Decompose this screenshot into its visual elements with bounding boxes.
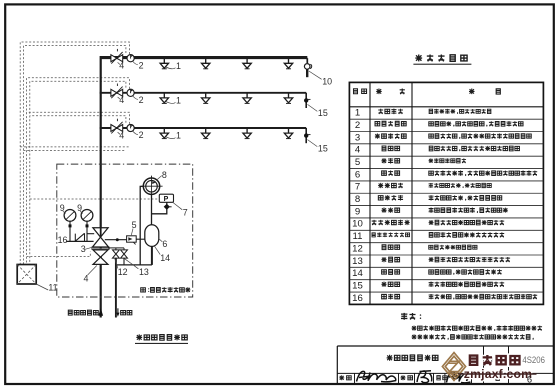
svg-text:6: 6 xyxy=(162,239,167,249)
wire drain header xyxy=(108,247,124,249)
test valve 13 xyxy=(121,250,128,258)
table header 编号 名称 用途 xyxy=(354,89,358,94)
drain valve 12 xyxy=(113,250,120,258)
svg-text:14: 14 xyxy=(160,253,170,263)
title block 设计 xyxy=(437,376,447,380)
svg-text:15: 15 xyxy=(318,143,328,153)
svg-text:8: 8 xyxy=(162,170,167,180)
svg-text:5: 5 xyxy=(355,157,360,168)
test valve 15 (line end) xyxy=(304,93,311,108)
sprinkler head line 1 #1 xyxy=(160,58,168,69)
text 说明： xyxy=(401,313,421,320)
check valve 16 xyxy=(75,233,84,241)
label 3 leader xyxy=(85,247,92,249)
label 12 leader xyxy=(115,259,118,269)
drain arrow down xyxy=(117,308,119,313)
parts table title 主要部件表 xyxy=(415,54,467,61)
svg-text:1: 1 xyxy=(176,131,181,141)
wire zone1 inner dashed xyxy=(23,46,126,265)
wire main drain pipe xyxy=(115,258,117,317)
sprinkler head line 2 #1 xyxy=(160,93,168,104)
signature 1 xyxy=(357,371,397,381)
sprinkler head line 1 #4 xyxy=(284,58,292,69)
label 1 leader line 1 xyxy=(166,67,176,69)
svg-text:2: 2 xyxy=(355,120,360,131)
label 14 leader xyxy=(155,246,161,254)
label 6 leader xyxy=(159,239,163,242)
label 13 leader xyxy=(125,259,139,269)
title block 校对 xyxy=(401,375,413,380)
sprinkler head line 1 #3 xyxy=(243,58,251,69)
label 11 leader xyxy=(36,284,48,290)
label 4 leader line 2 xyxy=(118,97,120,99)
label 7 leader xyxy=(173,202,183,209)
note line 1 xyxy=(412,326,542,331)
svg-text:6: 6 xyxy=(355,169,360,180)
wire alarm output line xyxy=(105,239,127,241)
title block frame xyxy=(337,346,553,384)
label 2 leader line 3 xyxy=(133,131,138,135)
label 4 leader line 3 xyxy=(118,132,120,134)
label 10 leader xyxy=(309,71,322,79)
wire delay chamber drain (throttle) xyxy=(151,246,153,265)
note text 注：框内为报警阀组 xyxy=(141,287,191,292)
valve on pressure switch line xyxy=(164,204,170,210)
svg-text:1: 1 xyxy=(176,96,181,106)
svg-text:12: 12 xyxy=(352,243,363,254)
title block 湿式系统示意图 xyxy=(387,355,438,361)
title block 审核 xyxy=(339,375,351,380)
svg-text:14: 14 xyxy=(352,268,363,279)
wire zone2 inner dashed xyxy=(30,81,126,264)
pressure gauge 9 (right) xyxy=(81,210,93,242)
svg-text:4S206: 4S206 xyxy=(522,354,545,365)
wire branch line 1 xyxy=(101,57,308,59)
label 15 leader xyxy=(308,104,318,111)
svg-text:10: 10 xyxy=(322,76,332,86)
flow indicator 2 line 2 xyxy=(127,89,134,96)
wire main riser pipe xyxy=(101,57,308,233)
label 15 leader xyxy=(308,140,318,147)
wire zone3 box bottom dashed xyxy=(20,146,129,148)
label 4 leader line 1 xyxy=(118,62,120,64)
svg-text:zmjaxf.com: zmjaxf.com xyxy=(464,367,532,381)
sprinkler head line 3 #1 xyxy=(160,128,168,139)
svg-text:1: 1 xyxy=(355,108,360,119)
delay chamber 6 xyxy=(145,225,159,247)
wire water motor alarm drain xyxy=(140,186,143,265)
svg-text:2: 2 xyxy=(139,60,144,70)
diagram title 湿式系统示意图 xyxy=(136,334,187,340)
svg-text:12: 12 xyxy=(118,267,128,277)
sprinkler head line 3 #2 xyxy=(202,128,210,139)
svg-text:9: 9 xyxy=(60,203,65,213)
label 1 leader line 2 xyxy=(166,102,176,104)
svg-text:4: 4 xyxy=(119,61,124,71)
signature 2 xyxy=(417,371,432,383)
svg-text:2: 2 xyxy=(139,130,144,140)
water motor alarm 8 xyxy=(141,176,163,195)
label 4 leader xyxy=(88,266,97,276)
pressure switch 7 xyxy=(159,194,173,202)
label 1 leader line 3 xyxy=(166,137,176,139)
wire branch line 3 xyxy=(100,127,307,129)
alarm group boundary dash-dot box xyxy=(57,164,193,297)
title block 图集号 xyxy=(488,357,506,362)
svg-text:4: 4 xyxy=(84,273,89,283)
svg-text:13: 13 xyxy=(139,267,149,277)
wire filter to delay chamber xyxy=(136,238,145,240)
label 9 right leader xyxy=(80,211,83,213)
flow indicator 2 line 3 xyxy=(127,124,134,131)
wire to pressure switch dashed xyxy=(30,198,160,200)
text 排水 xyxy=(121,310,132,314)
end test device 10 (line 1 end) xyxy=(304,58,311,77)
sprinkler head line 2 #4 xyxy=(284,93,292,104)
fire alarm control panel 11 xyxy=(17,265,36,285)
wire to signal valve dashed xyxy=(27,252,91,257)
flow indicator 2 line 1 xyxy=(127,55,134,62)
note line 2 xyxy=(412,334,534,339)
label 2 leader line 2 xyxy=(133,96,138,100)
signature 3 xyxy=(447,372,472,383)
sprinkler head line 2 #3 xyxy=(243,93,251,104)
test valve 15 (line end) xyxy=(304,128,311,143)
label 9 left leader xyxy=(63,211,66,213)
svg-text:2: 2 xyxy=(139,95,144,105)
valve 4 signal butterfly valve line 3 xyxy=(111,119,123,134)
svg-text:15: 15 xyxy=(318,108,328,118)
svg-text:1: 1 xyxy=(176,61,181,71)
watermark logo xyxy=(442,353,465,381)
svg-text:7: 7 xyxy=(355,182,360,193)
svg-text:9: 9 xyxy=(355,206,360,217)
svg-text:11: 11 xyxy=(353,231,363,242)
signal valve 4 (below alarm valve) xyxy=(93,250,108,265)
wire supply stub to alarm valve xyxy=(87,233,94,235)
svg-text:9: 9 xyxy=(77,203,82,213)
sprinkler head line 1 #2 xyxy=(202,58,210,69)
wire zone3 outer dashed xyxy=(27,112,130,124)
pressure gauge 9 (left) xyxy=(64,210,76,242)
filter 5 xyxy=(127,236,137,242)
svg-text:15: 15 xyxy=(352,281,363,292)
node junction dot xyxy=(116,238,119,241)
wire valve13 drop xyxy=(123,258,125,265)
sprinkler head line 3 #3 xyxy=(243,128,251,139)
wire drain manifold xyxy=(116,264,152,266)
wet alarm valve 3 (hourglass) xyxy=(93,228,109,247)
svg-text:P: P xyxy=(164,196,169,203)
sprinkler head line 2 #2 xyxy=(202,93,210,104)
wire branch line 2 xyxy=(100,92,307,94)
svg-text:10: 10 xyxy=(352,219,363,230)
wire tee to pressure switch xyxy=(152,202,167,214)
svg-text:7: 7 xyxy=(183,208,188,218)
svg-text:3: 3 xyxy=(355,132,360,143)
watermark halo xyxy=(470,355,520,365)
svg-text:4: 4 xyxy=(119,130,124,140)
svg-text:4: 4 xyxy=(119,95,124,105)
svg-text:13: 13 xyxy=(352,256,363,267)
svg-text:16: 16 xyxy=(352,293,363,304)
wire zone1 outer dashed xyxy=(20,42,129,265)
label 8 leader xyxy=(157,176,161,180)
svg-text:6: 6 xyxy=(527,373,532,384)
label 5 leader xyxy=(131,229,133,236)
valve 4 signal butterfly valve line 2 xyxy=(111,84,123,99)
watermark 智淼消防 xyxy=(470,355,520,365)
label 2 leader line 1 xyxy=(133,61,138,65)
svg-text:8: 8 xyxy=(355,194,360,205)
watermark zmjaxf.com xyxy=(459,373,537,375)
svg-text:16: 16 xyxy=(58,235,68,245)
wire zone2 outer dashed xyxy=(27,78,130,265)
valve 4 signal butterfly valve line 1 xyxy=(111,49,123,64)
svg-text:11: 11 xyxy=(48,283,57,293)
sprinkler head line 3 #4 xyxy=(284,128,292,139)
svg-text:4: 4 xyxy=(355,145,361,156)
wire bypass pipe xyxy=(66,240,94,242)
supply arrow up xyxy=(98,308,103,316)
parts table frame xyxy=(349,82,543,304)
wire zone3 inner dashed xyxy=(30,116,126,123)
svg-text:5: 5 xyxy=(132,220,137,230)
svg-text:3: 3 xyxy=(81,244,86,254)
text 接消防供水 xyxy=(68,310,98,315)
title block 页 xyxy=(496,376,499,380)
wire alarm riser to water motor alarm xyxy=(151,195,153,225)
